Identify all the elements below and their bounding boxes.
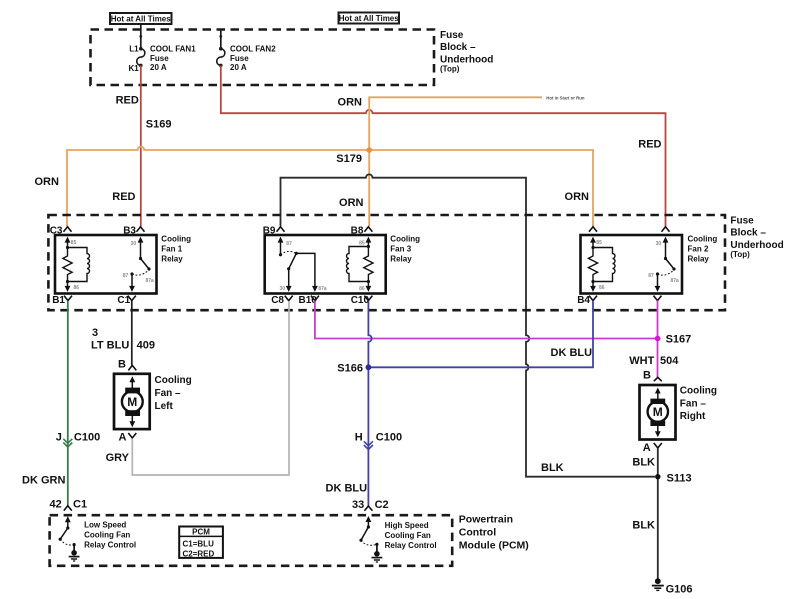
- svg-text:86: 86: [359, 286, 365, 292]
- relay2 resistor element: [588, 248, 597, 282]
- label Low Speed Cooling Fan Relay Control: [84, 521, 136, 550]
- svg-text:Block –: Block –: [440, 42, 476, 53]
- svg-text:C2: C2: [375, 499, 389, 511]
- svg-text:504: 504: [660, 355, 679, 367]
- svg-text:DK BLU: DK BLU: [551, 347, 593, 359]
- relay2 coil terminal 85 arrow: [590, 237, 596, 249]
- wire BLK from right fan A through S113 to G106: [657, 449, 659, 580]
- svg-text:COOL FAN1: COOL FAN1: [150, 44, 196, 53]
- svg-text:ORN: ORN: [339, 197, 364, 209]
- svg-text:Right: Right: [680, 411, 706, 422]
- relay2 connector chevrons bottom B4: [589, 296, 662, 301]
- svg-text:Hot at All Times: Hot at All Times: [111, 14, 172, 23]
- relay3 resistor element: [364, 247, 373, 282]
- relay1 connector chevrons top C3 B3: [64, 227, 145, 232]
- svg-text:Powertrain: Powertrain: [459, 514, 513, 526]
- svg-text:ORN: ORN: [338, 97, 363, 109]
- svg-text:C1: C1: [73, 499, 87, 511]
- relay1 resistor element: [63, 248, 72, 282]
- svg-text:Cooling: Cooling: [390, 235, 420, 244]
- svg-text:Relay: Relay: [161, 255, 183, 264]
- label Fuse Block Underhood (Top) upper: [440, 30, 493, 74]
- svg-text:BLK: BLK: [541, 462, 564, 474]
- connector A left fan chevron: [128, 433, 136, 438]
- relay3 switch terminal 87 arrow: [278, 237, 284, 257]
- label Cooling Fan Right: [680, 386, 717, 422]
- svg-text:RED: RED: [638, 138, 661, 150]
- fuse F1 COOL FAN1 feed wire: [140, 24, 142, 48]
- relay1 coil terminal 85 arrow: [65, 237, 71, 249]
- svg-text:Hot at All Times: Hot at All Times: [339, 14, 400, 23]
- svg-text:K1: K1: [129, 64, 140, 73]
- relay2 switch terminal 87 arrow: [655, 272, 661, 292]
- svg-text:87a: 87a: [671, 278, 680, 284]
- relay3 switch arm: [287, 252, 298, 271]
- svg-text:B1: B1: [52, 295, 65, 306]
- svg-text:LT BLU: LT BLU: [91, 340, 129, 352]
- svg-text:C3: C3: [50, 226, 63, 237]
- svg-text:WHT: WHT: [629, 355, 654, 367]
- relay3 coil terminal 85 arrow: [366, 237, 372, 248]
- Hot at All Times box 1: [110, 13, 172, 24]
- relay2 connector chevrons top: [589, 227, 670, 232]
- svg-text:S167: S167: [666, 334, 692, 346]
- svg-text:Relay Control: Relay Control: [84, 541, 136, 550]
- fuse F1 COOL FAN1 20A symbol: [137, 47, 145, 67]
- svg-text:Fan 3: Fan 3: [390, 245, 411, 254]
- svg-text:Cooling Fan: Cooling Fan: [84, 531, 130, 540]
- svg-text:GRY: GRY: [106, 452, 130, 464]
- relay2 switch terminal 30 arrow: [663, 237, 669, 261]
- svg-text:3: 3: [92, 327, 98, 339]
- relay K1 Cooling Fan 1 Relay box: [55, 235, 157, 294]
- label 3 LT BLU 409: [91, 327, 155, 351]
- svg-text:30: 30: [656, 241, 662, 247]
- wire BLK from relay3 B9 up over right and down to splice S113: [281, 174, 656, 476]
- relay K2 Cooling Fan 2 Relay box: [581, 235, 683, 294]
- svg-text:85: 85: [359, 240, 365, 246]
- relay1 coil winding element: [68, 248, 90, 282]
- svg-text:85: 85: [596, 240, 602, 246]
- svg-text:Relay: Relay: [688, 255, 710, 264]
- svg-text:C1=BLU: C1=BLU: [183, 539, 215, 548]
- svg-text:L1: L1: [129, 44, 139, 53]
- label 42 C1: [50, 499, 88, 511]
- label Cooling Fan 2 Relay: [688, 235, 718, 264]
- relay3 connector chevrons bottom C8 B10 C10: [285, 296, 373, 301]
- svg-text:Cooling: Cooling: [155, 375, 192, 386]
- svg-text:Fuse: Fuse: [440, 30, 464, 41]
- PCM dashed box Powertrain Control Module: [50, 515, 453, 566]
- svg-text:Fuse: Fuse: [730, 215, 754, 226]
- svg-text:87: 87: [286, 241, 292, 247]
- svg-text:87: 87: [648, 273, 654, 279]
- svg-text:DK GRN: DK GRN: [22, 474, 65, 486]
- wire RED from fuse1 K1 down to relay1 terminal B3: [140, 65, 142, 226]
- svg-text:Module (PCM): Module (PCM): [459, 540, 529, 552]
- svg-text:B3: B3: [123, 226, 136, 237]
- svg-text:Fan 1: Fan 1: [161, 245, 182, 254]
- svg-text:(Top): (Top): [730, 250, 750, 259]
- svg-text:S166: S166: [337, 363, 363, 375]
- svg-text:S169: S169: [146, 119, 172, 131]
- svg-text:87: 87: [123, 273, 129, 279]
- svg-text:Fan –: Fan –: [680, 398, 707, 409]
- wire ORN bus with hop over red, to relay1 C3 and relay2 85: [67, 147, 593, 226]
- relay3 connector chevrons top B9 B8: [277, 227, 373, 232]
- svg-text:Cooling: Cooling: [680, 386, 717, 397]
- motor M Cooling Fan Right box: [640, 385, 676, 440]
- svg-text:86: 86: [599, 285, 605, 291]
- wire RED from fuse2 down then right bus then down to relay2 terminal 30: [221, 65, 666, 226]
- relay1 connector chevrons bottom B1 C1: [64, 296, 136, 301]
- ground symbol PCM low speed driver: [69, 550, 80, 561]
- svg-text:BLK: BLK: [632, 519, 655, 531]
- relay2 switch arm: [666, 259, 676, 271]
- relay2 coil terminal 86 arrow: [590, 280, 596, 292]
- svg-text:M: M: [127, 395, 137, 409]
- wire ORN from Hot in Start or Run down to splice S179 and relay3 B8: [369, 97, 542, 226]
- svg-text:(Top): (Top): [440, 65, 460, 74]
- wire DK GRN from relay1 B1 to PCM 42 C1: [67, 301, 69, 506]
- ground symbol PCM high speed driver: [372, 551, 383, 562]
- svg-text:Relay: Relay: [390, 255, 412, 264]
- label COOL FAN1 Fuse 20 A: [150, 44, 196, 72]
- fuse block underhood top dashed box: [91, 30, 435, 86]
- connector C100 H double chevron: [364, 441, 373, 449]
- svg-text:Low Speed: Low Speed: [84, 521, 126, 530]
- relay3 coil winding element: [347, 247, 369, 282]
- svg-text:BLK: BLK: [632, 456, 655, 468]
- svg-text:PCM: PCM: [192, 528, 210, 537]
- svg-text:C2=RED: C2=RED: [183, 549, 215, 558]
- relay1 switch arm: [141, 259, 151, 271]
- svg-text:20 A: 20 A: [230, 63, 247, 72]
- svg-text:Fan –: Fan –: [155, 388, 182, 399]
- relay3 switch dashed throw: [281, 251, 297, 254]
- PCM high speed driver: [359, 516, 378, 552]
- svg-text:RED: RED: [116, 95, 139, 107]
- connector B right fan chevron: [654, 377, 662, 381]
- wire PNK WHT from relay2 87 through S167 to right fan B: [657, 301, 659, 378]
- wire GRY from left fan A to relay3 C8: [132, 301, 289, 475]
- svg-text:High Speed: High Speed: [385, 521, 429, 530]
- relay K3 Cooling Fan 3 Relay box: [265, 235, 386, 294]
- svg-text:Cooling Fan: Cooling Fan: [385, 531, 431, 540]
- svg-text:20 A: 20 A: [150, 63, 167, 72]
- wire DK BLU branch from S166 to relay2 B4: [368, 301, 593, 368]
- Hot at All Times box 2: [339, 13, 400, 24]
- svg-text:B: B: [643, 370, 651, 382]
- svg-text:C1: C1: [117, 295, 130, 306]
- svg-text:Control: Control: [459, 527, 496, 539]
- relay1 switch dashed throw to 87a: [132, 270, 149, 275]
- connector C100 J double chevron: [63, 439, 72, 447]
- label Powertrain Control Module (PCM): [459, 514, 529, 552]
- label COOL FAN2 Fuse 20 A: [230, 44, 276, 72]
- connector A right fan chevron: [654, 443, 662, 448]
- svg-text:B9: B9: [263, 226, 276, 237]
- label Fuse Block Underhood (Top) right: [730, 215, 783, 259]
- svg-text:30: 30: [279, 286, 285, 292]
- wire LT BLU 409 from relay1 C1 to left fan B: [131, 301, 133, 366]
- svg-text:Fuse: Fuse: [150, 54, 169, 63]
- relay1 switch terminal 87 arrow: [129, 272, 135, 292]
- svg-text:C100: C100: [74, 432, 100, 444]
- svg-text:S179: S179: [336, 153, 362, 165]
- svg-text:C100: C100: [376, 432, 402, 444]
- label Cooling Fan Left: [155, 375, 192, 412]
- label Cooling Fan 1 Relay: [161, 235, 191, 264]
- svg-text:C10: C10: [351, 295, 370, 306]
- svg-text:Block –: Block –: [730, 228, 766, 239]
- svg-text:33: 33: [352, 499, 364, 511]
- splice S113: [655, 474, 660, 479]
- connector B left fan chevron: [128, 365, 136, 370]
- svg-text:409: 409: [137, 340, 155, 352]
- svg-text:M: M: [653, 405, 663, 419]
- relay1 switch terminal 30 arrow: [138, 237, 144, 261]
- svg-text:86: 86: [74, 285, 80, 291]
- svg-text:A: A: [119, 432, 127, 444]
- svg-text:G106: G106: [666, 584, 693, 596]
- fuse F2 COOL FAN2 feed wire: [220, 30, 222, 49]
- PCM legend table: [179, 527, 223, 559]
- connector chevron PCM 33 C2: [364, 506, 372, 511]
- svg-text:C8: C8: [271, 295, 284, 306]
- splice S167: [655, 336, 661, 342]
- svg-text:Fan 2: Fan 2: [688, 245, 709, 254]
- svg-text:B4: B4: [577, 295, 590, 306]
- svg-text:Cooling: Cooling: [161, 235, 191, 244]
- fuse F2 COOL FAN2 20A symbol: [217, 47, 225, 67]
- PCM low speed driver: [59, 516, 76, 551]
- relay3 coil terminal 86 arrow: [366, 280, 372, 292]
- svg-text:42: 42: [50, 499, 62, 511]
- label Cooling Fan 3 Relay: [390, 235, 420, 264]
- svg-text:H: H: [355, 432, 363, 444]
- svg-text:B: B: [118, 358, 126, 370]
- svg-text:J: J: [56, 432, 62, 444]
- svg-text:S113: S113: [667, 472, 692, 484]
- wire PNK from relay3 B10 to splice S167: [315, 301, 656, 339]
- svg-text:85: 85: [71, 240, 77, 246]
- relay2 switch dashed throw to 87a: [658, 270, 675, 275]
- svg-text:87a: 87a: [146, 278, 155, 284]
- svg-text:A: A: [643, 442, 651, 454]
- label WHT 504: [629, 355, 679, 367]
- relay2 coil winding element: [593, 248, 615, 282]
- svg-text:COOL FAN2: COOL FAN2: [230, 44, 276, 53]
- svg-text:87a: 87a: [318, 286, 327, 292]
- label High Speed Cooling Fan Relay Control: [385, 521, 437, 550]
- svg-text:DK BLU: DK BLU: [326, 483, 368, 495]
- splice S166: [366, 364, 372, 370]
- motor M Cooling Fan Left box: [114, 374, 150, 429]
- ground G106: [652, 578, 664, 590]
- relay3 switch terminal 30 arrow: [286, 269, 292, 292]
- connector chevron PCM 42 C1: [64, 506, 72, 511]
- svg-text:Hot in Start or Run: Hot in Start or Run: [546, 96, 585, 101]
- relay1 coil terminal 86 arrow: [65, 280, 71, 292]
- fuse block underhood dashed box 2 (relays): [48, 215, 725, 310]
- svg-text:Cooling: Cooling: [688, 235, 718, 244]
- svg-text:RED: RED: [112, 191, 135, 203]
- wire DK BLU from relay3 C10 down through S166 to PCM 33 C2 with hop over pink: [368, 301, 371, 506]
- svg-text:Relay Control: Relay Control: [385, 541, 437, 550]
- splice S179: [366, 147, 372, 153]
- svg-text:ORN: ORN: [565, 191, 590, 203]
- svg-text:Fuse: Fuse: [230, 54, 249, 63]
- svg-text:ORN: ORN: [35, 176, 60, 188]
- label 33 C2: [352, 499, 389, 511]
- svg-text:30: 30: [131, 241, 137, 247]
- svg-text:B8: B8: [351, 226, 364, 237]
- svg-text:Left: Left: [155, 401, 174, 412]
- relay3 terminal 87a path: [296, 253, 318, 292]
